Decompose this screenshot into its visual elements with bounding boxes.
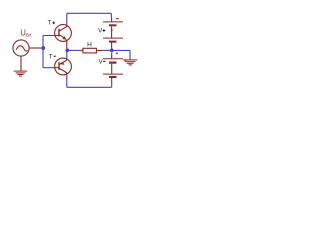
battery V- xyxy=(103,53,123,84)
wire: down to right ground xyxy=(129,50,131,55)
wire: resistor to mid node xyxy=(104,49,112,51)
right ground stem xyxy=(129,55,131,59)
svg-text:H: H xyxy=(87,42,92,49)
wire: bottom rail xyxy=(67,86,112,88)
svg-text:ВХ: ВХ xyxy=(26,32,32,37)
wire: input vertical xyxy=(42,36,44,68)
wire: to T+ base xyxy=(43,35,55,37)
wire: down to V+ battery xyxy=(110,13,112,17)
AC source bottom lead xyxy=(20,56,22,71)
wire: output node down to T- emitter xyxy=(66,50,68,58)
node: mid supply junction dot xyxy=(110,49,114,53)
resistor H xyxy=(80,48,104,53)
wire: to T- base xyxy=(43,67,55,69)
wire: mid node to right ground xyxy=(112,49,130,51)
background xyxy=(0,0,150,102)
svg-text:T: T xyxy=(49,54,53,60)
wire: up to V- battery bottom xyxy=(111,83,113,87)
wire: top rail xyxy=(67,12,112,14)
battery V+ xyxy=(103,17,123,47)
wire: output node to resistor xyxy=(67,49,80,51)
ground (right) xyxy=(123,60,137,65)
AC source V1 label Uвх xyxy=(20,29,32,38)
wire: T+ collector to top rail xyxy=(66,13,68,24)
AC source right lead xyxy=(29,47,41,49)
wire: source to input node xyxy=(41,47,43,49)
V+ polarity minus mark xyxy=(116,18,119,20)
transistor T+ (NPN) xyxy=(55,25,72,42)
AC source V1 circle xyxy=(13,40,29,56)
wire: T- collector to bottom rail xyxy=(66,75,68,87)
node: input junction dot xyxy=(41,46,45,50)
T+ emitter lead down to output node xyxy=(66,41,68,51)
wire: V+ bottom to mid node xyxy=(111,47,113,51)
V+ polarity plus mark xyxy=(111,29,113,31)
node: output junction dot xyxy=(65,48,69,52)
svg-text:V: V xyxy=(99,60,103,66)
V- polarity minus mark xyxy=(124,59,126,61)
ground (left, under source) xyxy=(14,71,28,76)
transistor T- (PNP) xyxy=(55,58,72,75)
V- polarity plus mark xyxy=(116,52,118,54)
svg-text:V: V xyxy=(98,29,102,35)
svg-text:T: T xyxy=(48,21,52,27)
